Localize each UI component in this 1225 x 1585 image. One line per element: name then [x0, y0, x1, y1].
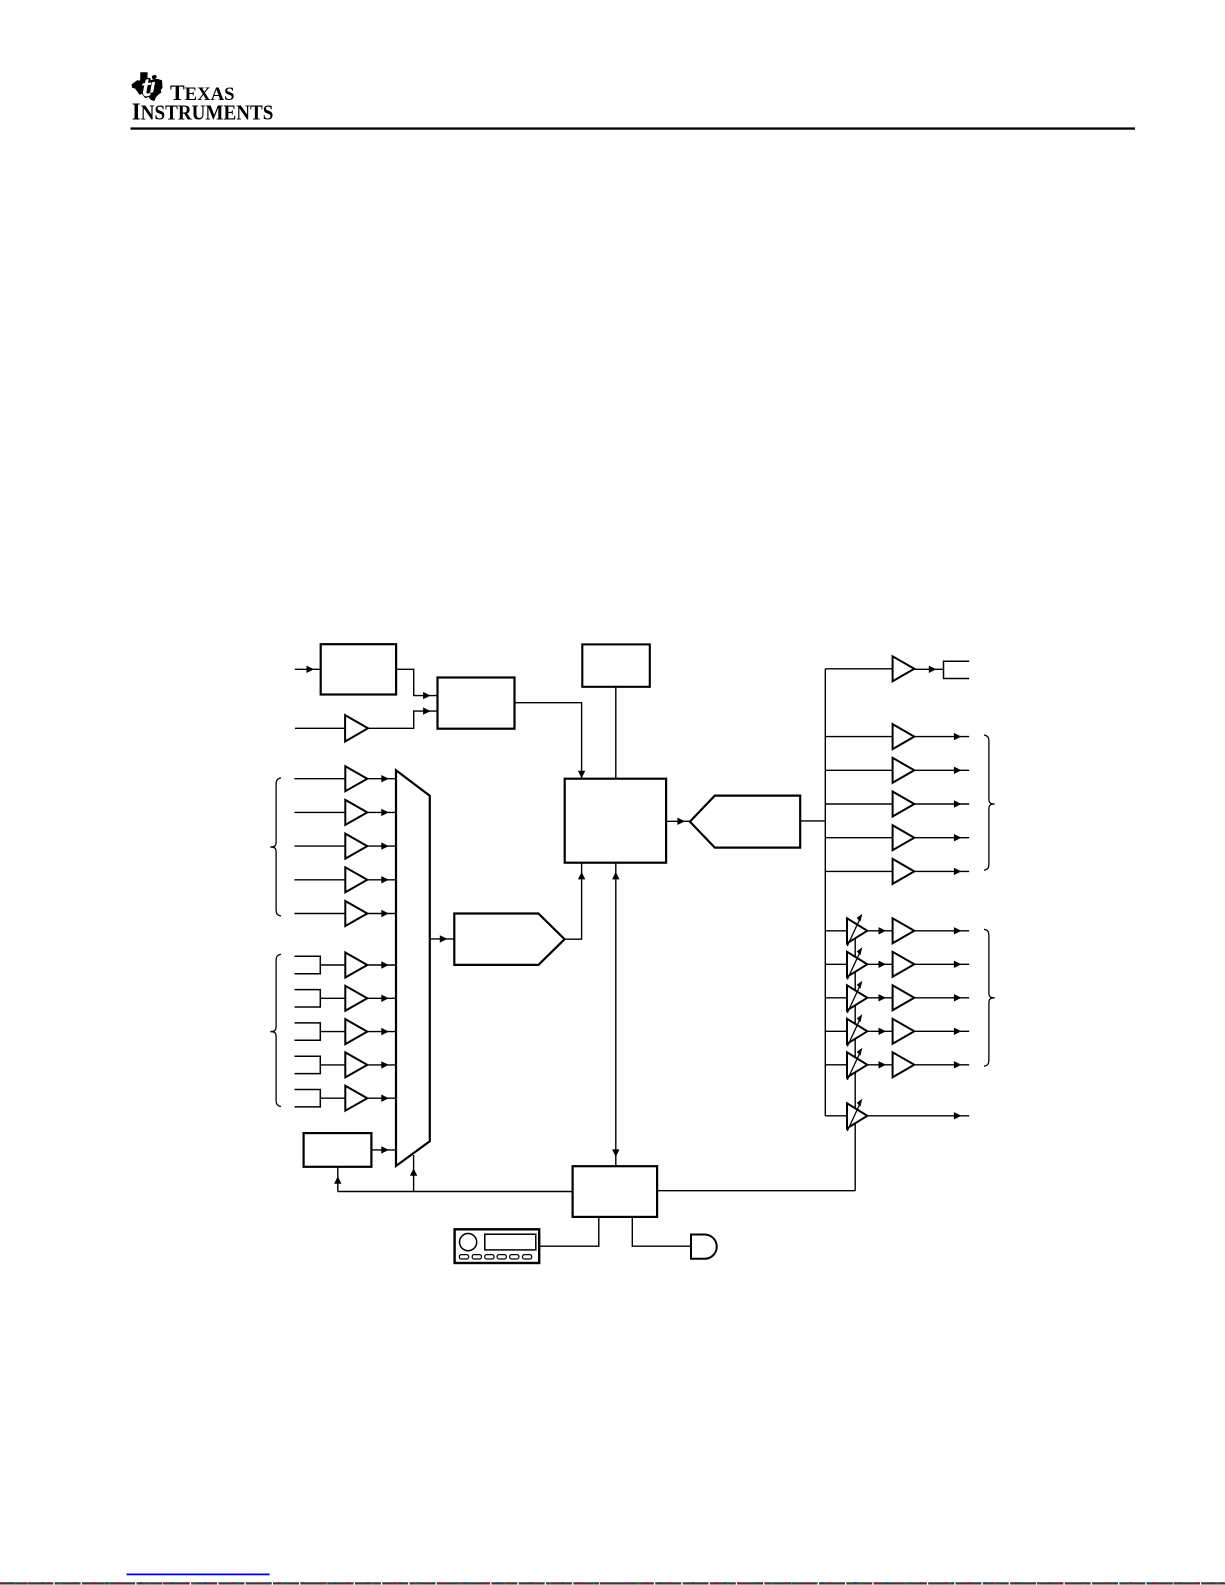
wire: LL4 to mux — [367, 1061, 396, 1068]
wire: LR3 output — [914, 994, 969, 1001]
wire: VA4 to amp — [867, 1028, 892, 1035]
variable attenuator VA1 — [847, 914, 867, 946]
wire: UR1 output — [914, 733, 969, 740]
wire: trunk branch UR3 — [825, 803, 892, 805]
connector stub (open box) LL5 — [295, 1090, 321, 1107]
input amp UL1 — [345, 766, 367, 791]
wire: UR2 output — [914, 767, 969, 774]
input amp UL3 — [345, 834, 367, 859]
connector stub (open box) LL1 — [295, 956, 321, 973]
wire: VA6 output — [867, 1112, 969, 1119]
footer fine-print noise line — [0, 1582, 1225, 1584]
connector stub (open box) LL3 — [295, 1023, 321, 1040]
wire: B4 to mux — [371, 1146, 396, 1153]
input amp LL5 — [345, 1086, 367, 1111]
block B2 — [438, 678, 515, 729]
wire: mux to P1 — [430, 935, 455, 942]
wire: trunk branch UR2 — [825, 769, 892, 771]
block B3 (top middle) — [582, 644, 650, 686]
wire: LL3 to mux — [367, 1028, 396, 1035]
wire: trunk branch LR5 — [825, 1064, 847, 1066]
input amp LL2 — [345, 986, 367, 1011]
wire: stub to amp LL5 — [320, 1097, 345, 1099]
gate G1 (D shape) — [691, 1235, 717, 1259]
wire: central block to P2 — [666, 818, 690, 825]
wire: UL4 to mux — [367, 876, 396, 883]
connector stub (open box) top right — [944, 661, 970, 678]
input amp LL1 — [345, 953, 367, 978]
brace lower-right group — [984, 929, 995, 1066]
wire: VA5 to amp — [867, 1061, 892, 1068]
svg-text:TEXAS: TEXAS — [170, 80, 235, 105]
input mux M1 — [396, 770, 430, 1166]
wire: A0 to B2 — [368, 707, 438, 728]
wire: control block down-left to head unit — [539, 1217, 599, 1246]
input amp UL2 — [345, 800, 367, 825]
wire: LR5 output — [914, 1061, 969, 1068]
brace lower-left group — [270, 954, 281, 1106]
wire: upper-left input line 1 — [294, 778, 345, 780]
wire: LL1 to mux — [367, 961, 396, 968]
wire: input into A0 — [295, 727, 345, 729]
variable attenuator VA3 — [847, 981, 867, 1013]
wire: trunk branch UR1 — [825, 736, 892, 738]
output amp UR3 — [893, 792, 915, 817]
wire: upper-left input line 5 — [294, 913, 345, 915]
wire: stub to amp LL1 — [320, 964, 345, 966]
wire: upper-left input line 3 — [294, 845, 345, 847]
wire: attenuator control vertical — [854, 939, 856, 1191]
brace upper-right group — [984, 735, 995, 870]
wire: B3 down to central block — [615, 687, 617, 779]
wire: control line left — [338, 1191, 573, 1193]
svg-text:INSTRUMENTS: INSTRUMENTS — [132, 98, 274, 125]
block B1 (top left) — [321, 644, 396, 694]
wire: UL5 to mux — [367, 910, 396, 917]
wire: VA3 to amp — [867, 994, 892, 1001]
wire: control up into B4 — [334, 1167, 341, 1192]
output amp UR4 — [893, 825, 915, 850]
wire: B1 to B2 — [396, 669, 437, 699]
wire: trunk bottom branch to VA6 — [825, 1115, 847, 1117]
output amp LR2 — [893, 952, 915, 977]
wire: UR3 output — [914, 800, 969, 807]
wire: control line right to attenuators — [657, 1190, 855, 1192]
wire: UL1 to mux — [367, 775, 396, 782]
wire: P1 up into central block — [565, 863, 586, 940]
wire: UR4 output — [914, 834, 969, 841]
wire: UR5 output — [914, 868, 969, 875]
buffer amp A0 (top left) — [345, 715, 368, 741]
wire: control block down-right to gate — [632, 1217, 691, 1246]
variable attenuator VA2 — [847, 947, 867, 979]
wire: output trunk vertical — [824, 669, 826, 1116]
wire: UL2 to mux — [367, 809, 396, 816]
wire: LR2 output — [914, 961, 969, 968]
output amp UR1 — [893, 724, 915, 749]
block B4 (bottom left) — [304, 1133, 372, 1167]
wire: LL2 to mux — [367, 995, 396, 1002]
output amp LR1 — [893, 918, 915, 943]
converter P1 (points right) — [454, 914, 564, 965]
output amp TR0 — [893, 656, 915, 681]
wire: P2 to output trunk — [800, 820, 825, 822]
TI Texas-state logo mark — [131, 72, 162, 101]
output amp UR5 — [893, 859, 915, 884]
header rule — [131, 127, 1136, 129]
control block U2 — [573, 1166, 658, 1217]
output amp UR2 — [893, 758, 915, 783]
wire: trunk branch LR1 — [825, 930, 847, 932]
footer link line — [127, 1574, 270, 1576]
wire: UL3 to mux — [367, 842, 396, 849]
wire: control up into mux select — [410, 1155, 417, 1192]
wire: upper-left input line 4 — [294, 879, 345, 881]
wire: upper-left input line 2 — [294, 811, 345, 813]
wire: TR0 to stub — [914, 666, 943, 673]
wire: trunk branch LR2 — [825, 963, 847, 965]
central block U1 — [565, 779, 666, 863]
output amp LR3 — [893, 985, 915, 1010]
wire: LR4 output — [914, 1028, 969, 1035]
converter P2 (points left) — [690, 796, 800, 848]
wire: VA1 to amp — [867, 927, 892, 934]
wire: stub to amp LL4 — [320, 1064, 345, 1066]
connector stub (open box) LL4 — [295, 1056, 321, 1073]
wire: B2 to central block — [515, 703, 586, 779]
input amp LL3 — [345, 1019, 367, 1044]
input amp UL5 — [345, 901, 367, 926]
wire: input into B1 — [295, 666, 321, 673]
wire: trunk branch LR4 — [825, 1030, 847, 1032]
wire: LR1 output — [914, 927, 969, 934]
wire: stub to amp LL2 — [320, 997, 345, 999]
connector stub (open box) LL2 — [295, 990, 321, 1007]
wire: LL5 to mux — [367, 1095, 396, 1102]
wire: trunk branch UR4 — [825, 837, 892, 839]
wire: trunk branch LR3 — [825, 997, 847, 999]
variable attenuator VA5 — [847, 1048, 867, 1080]
wire: VA2 to amp — [867, 961, 892, 968]
input amp UL4 — [345, 867, 367, 892]
head-unit (radio) icon — [455, 1229, 540, 1263]
wire: stub to amp LL3 — [320, 1031, 345, 1033]
output amp LR4 — [893, 1019, 915, 1044]
variable attenuator VA4 — [847, 1014, 867, 1046]
wire: central block / control block vertical — [612, 863, 619, 1166]
wire: trunk top branch — [825, 668, 892, 670]
input amp LL4 — [345, 1052, 367, 1077]
wire: trunk branch UR5 — [825, 870, 892, 872]
output amp LR5 — [893, 1052, 915, 1077]
variable attenuator VA6 — [847, 1099, 867, 1131]
brace upper-left group — [270, 778, 281, 916]
